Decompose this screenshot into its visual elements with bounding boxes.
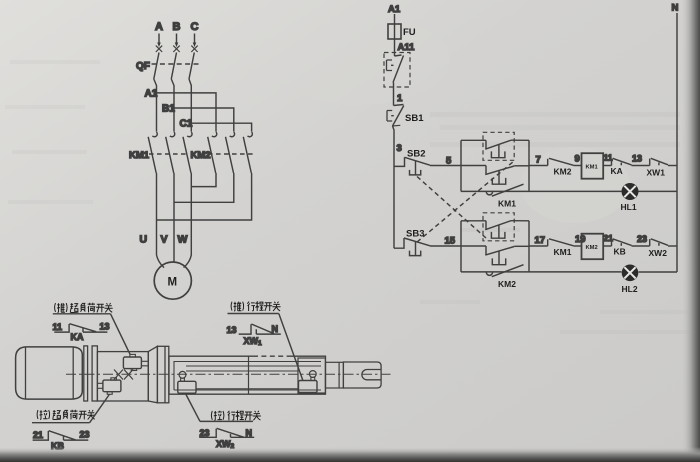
svg-text:XW1: XW1 <box>647 168 666 178</box>
label push overload switch <box>55 303 113 313</box>
underline push overload <box>53 313 111 315</box>
wire A1 to fuse <box>394 14 396 24</box>
clevis end <box>343 362 381 388</box>
underline pull travel <box>200 420 253 422</box>
svg-text:23: 23 <box>637 234 647 244</box>
svg-text:HL2: HL2 <box>622 284 638 294</box>
wire phase C to KM1 pole3 <box>189 79 191 132</box>
svg-text:A11: A11 <box>398 42 416 53</box>
svg-text:C: C <box>191 21 199 33</box>
coil KM1 <box>582 153 604 179</box>
svg-text:21: 21 <box>33 430 43 440</box>
svg-text:KA: KA <box>611 166 623 176</box>
label push travel switch <box>231 302 281 312</box>
wire row1 lamp branch <box>529 190 622 192</box>
KM2 self-hold contact <box>486 265 523 289</box>
wire KM2 pole1 crossover to W <box>191 173 216 187</box>
KM1 interlock NC contact <box>548 239 574 257</box>
svg-text:19: 19 <box>575 234 586 245</box>
parallel block row1 left vertical <box>460 140 462 191</box>
pull overload switch box on machine <box>97 378 121 395</box>
wire row1 middle left <box>461 165 486 167</box>
travel switch XW1 NC contact <box>647 158 669 177</box>
svg-text:1: 1 <box>397 93 403 104</box>
SB2 NO contact middle row1 <box>485 166 514 185</box>
wire fuse to switch <box>394 39 396 56</box>
breaker QF pole B blade <box>171 53 176 80</box>
svg-text:W: W <box>178 234 188 246</box>
machine flange cone right <box>148 346 157 403</box>
KM1 main contact pole2 <box>166 132 175 173</box>
overload switch KA NC contact <box>611 158 632 176</box>
wire tap A1 to KM2 pole1 <box>157 93 217 132</box>
contact 21 KB 23 <box>33 429 90 451</box>
terminal X phase C <box>191 46 197 52</box>
contact 11 KA 13 <box>53 322 110 342</box>
svg-text:17: 17 <box>535 235 546 246</box>
wire XW1 to N <box>668 165 677 167</box>
svg-text:A: A <box>155 21 163 33</box>
wire row1 bottom branch <box>461 190 529 192</box>
svg-text:XW2: XW2 <box>649 248 668 258</box>
wire HL2 to N <box>639 271 678 273</box>
wire SB3 to node 15 <box>430 245 461 247</box>
svg-text:QF: QF <box>136 61 150 72</box>
svg-text:SB2: SB2 <box>407 149 425 160</box>
KM2 main contact pole3 <box>243 132 252 173</box>
fuse FU <box>388 24 416 39</box>
KM2 interlock NC contact <box>548 158 574 176</box>
svg-text:11: 11 <box>53 322 63 332</box>
contact 13 XW1 N <box>227 324 281 347</box>
wire row2 bottom branch <box>461 271 529 273</box>
svg-text:13: 13 <box>100 322 110 332</box>
push overload switch box on machine <box>123 354 148 370</box>
neutral N line <box>676 13 678 272</box>
KM1 main contact pole1 <box>148 132 157 173</box>
KM1 self-hold contact <box>486 184 523 208</box>
wire KM1 pole2 to V bus <box>173 173 175 262</box>
cylinder piston divider <box>248 356 250 394</box>
motor M <box>154 262 191 299</box>
svg-text:13: 13 <box>227 325 237 335</box>
svg-text:KM2: KM2 <box>498 279 516 289</box>
contactor KM1 interlock dashed link <box>149 153 189 155</box>
svg-text:KM1: KM1 <box>554 247 572 257</box>
indicator lamp HL2 <box>622 265 639 295</box>
wire KB to XW2 <box>632 245 650 247</box>
control switch contact <box>387 55 404 83</box>
wire row2 middle left <box>461 245 486 247</box>
underline pull overload <box>32 422 90 424</box>
wire coil to KB <box>603 245 611 247</box>
svg-text:FU: FU <box>403 27 416 38</box>
mechanical link dashed box row2 <box>483 213 514 241</box>
svg-text:SB1: SB1 <box>405 113 424 124</box>
SB3 NO contact middle row2 <box>485 246 514 265</box>
wire tap C1 to KM2 pole3 <box>191 123 251 131</box>
leader to push travel roller <box>279 314 303 381</box>
machine screw coupling X marks <box>114 370 133 380</box>
svg-text:KB: KB <box>614 247 626 257</box>
svg-text:23: 23 <box>80 429 90 439</box>
svg-text:N: N <box>272 324 279 334</box>
svg-text:N: N <box>246 428 253 438</box>
pull travel switch roller left <box>178 371 196 393</box>
wire node7 <box>529 165 548 167</box>
mechanical link SB3 to row1 contact <box>417 161 514 242</box>
wire node17 <box>529 245 548 247</box>
svg-text:7: 7 <box>536 155 541 166</box>
wire SB2 to node 5 <box>430 165 461 167</box>
phase C incoming arrow <box>193 34 197 48</box>
svg-text:5: 5 <box>446 156 452 167</box>
machine gear housing <box>97 352 148 401</box>
label pull overload switch <box>37 410 95 420</box>
wire row2 middle right <box>514 245 529 247</box>
svg-text:A1: A1 <box>388 4 401 15</box>
wire KM2 pole2 crossover to V <box>174 173 234 202</box>
wire to coil KM2 <box>574 245 582 247</box>
start button SB3 <box>394 229 430 256</box>
svg-text:A1: A1 <box>145 89 158 100</box>
svg-text:B: B <box>173 21 181 33</box>
travel switch XW2 NC contact <box>649 239 669 258</box>
svg-text:KM2: KM2 <box>554 167 572 177</box>
wire SB1 to node 3 and down to SB3 <box>393 126 395 248</box>
piston rod <box>326 362 344 388</box>
svg-text:KM1: KM1 <box>586 165 599 171</box>
machine flange plates left <box>84 346 98 401</box>
wire row2 top branch left <box>461 220 486 222</box>
svg-text:SB3: SB3 <box>406 229 424 240</box>
breaker QF pole C blade <box>189 53 194 80</box>
svg-text:9: 9 <box>575 154 580 165</box>
coil KM2 <box>582 234 604 260</box>
leader to pull overload box <box>90 395 110 423</box>
wire row2 lamp branch <box>529 271 622 273</box>
svg-text:B1: B1 <box>162 104 175 115</box>
wire phase B to KM1 pole2 <box>171 79 174 132</box>
wire phase A to KM1 pole1 <box>154 79 157 132</box>
overload switch KB NC contact <box>612 239 632 257</box>
leader to pull travel roller <box>186 395 200 422</box>
svg-text:13: 13 <box>632 154 642 164</box>
machine flange plate right <box>157 346 168 403</box>
wire U into motor <box>157 254 165 268</box>
leader to push overload box <box>111 314 131 354</box>
control switch dashed enclosure <box>384 53 410 88</box>
KM2 main contact pole2 <box>226 132 235 173</box>
svg-text:KA: KA <box>71 332 84 342</box>
machine motor body <box>16 347 83 399</box>
breaker QF interlock dashed link <box>152 63 201 65</box>
phase B incoming arrow <box>175 34 179 48</box>
svg-text:KM1: KM1 <box>498 199 516 209</box>
mechanical link SB2 to row2 contact <box>417 177 486 239</box>
wire tap B1 to KM2 pole2 <box>174 108 234 132</box>
wire switch to node 1 <box>393 83 395 106</box>
svg-text:M: M <box>168 277 178 289</box>
svg-text:HL1: HL1 <box>621 202 637 212</box>
wire KM1 pole1 to U bus <box>156 173 158 254</box>
KM1 main contact pole3 <box>183 132 192 173</box>
stop button SB1 <box>387 105 424 127</box>
svg-text:KM2: KM2 <box>586 245 598 251</box>
contactor KM2 interlock dashed link <box>208 153 254 155</box>
wire row1 top branch left <box>461 139 486 141</box>
svg-text:V: V <box>161 234 168 246</box>
parallel block row2 left vertical <box>460 221 462 272</box>
mechanical link dashed box row1 <box>483 132 514 160</box>
terminal X phase A <box>156 46 162 52</box>
wire coil to KA <box>603 165 611 167</box>
wire to coil KM1 <box>574 165 582 167</box>
wire KM2 pole3 crossover to U <box>157 173 252 220</box>
svg-text:C1: C1 <box>180 119 193 130</box>
svg-text:3: 3 <box>397 143 402 154</box>
machine center line <box>66 373 393 375</box>
terminal X phase B <box>173 46 179 52</box>
wire W into motor <box>184 254 192 268</box>
start button SB2 <box>394 149 430 175</box>
contact 23 XW2 N <box>199 428 254 450</box>
cylinder inner lines <box>174 362 321 391</box>
wire row1 middle right <box>514 165 529 167</box>
cylinder outer tube <box>169 356 326 394</box>
label pull travel switch <box>211 411 260 421</box>
parallel block row2 right vertical <box>528 221 530 272</box>
SB2 linked NC contact in row2 <box>485 221 511 239</box>
svg-text:U: U <box>140 234 148 246</box>
svg-text:N: N <box>672 3 679 14</box>
SB3 linked NC contact in row1 <box>485 140 511 158</box>
cylinder end block <box>298 358 325 393</box>
wire KM1 pole3 to W bus <box>190 173 192 254</box>
wire KA to XW1 <box>632 165 650 167</box>
indicator lamp HL1 <box>621 183 639 212</box>
svg-text:23: 23 <box>200 428 210 438</box>
KM2 main contact pole1 <box>208 132 217 173</box>
wire HL1 to N <box>639 190 678 192</box>
svg-text:KM2: KM2 <box>191 150 211 161</box>
parallel block row1 right vertical <box>528 140 530 191</box>
wire row2 top branch right <box>511 220 529 222</box>
wire row1 top branch right <box>511 139 529 141</box>
breaker QF pole A blade <box>154 53 159 80</box>
underline push travel <box>228 313 279 315</box>
wire XW2 to N <box>668 245 677 247</box>
svg-text:15: 15 <box>445 236 456 247</box>
phase A incoming arrow <box>157 34 161 48</box>
svg-text:KM1: KM1 <box>129 150 150 161</box>
push travel switch roller right <box>299 371 318 393</box>
